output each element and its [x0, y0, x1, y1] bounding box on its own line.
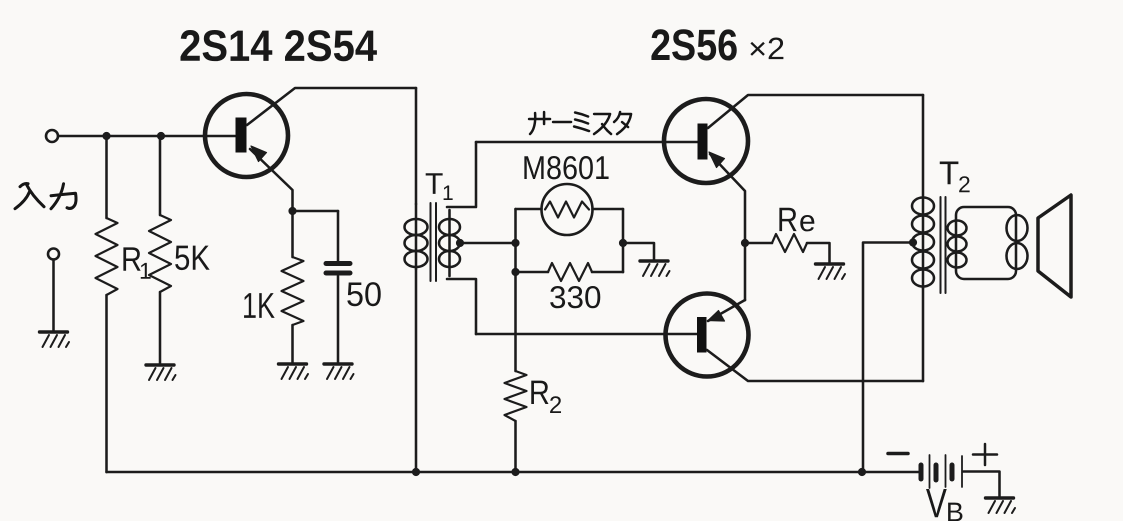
wire T2 center tap to bottom rail [863, 243, 913, 473]
wire thermistor line to Q2 base [476, 141, 698, 144]
battery VB negative plate 1 [919, 465, 924, 479]
svg-text:B: B [946, 497, 964, 521]
svg-text:50: 50 [346, 276, 382, 314]
Q1 emitter arrow [251, 146, 267, 162]
battery VB negative plate 3 [950, 465, 955, 479]
svg-text:5K: 5K [174, 239, 210, 278]
node L (T2 tap / rail) [858, 468, 866, 476]
svg-text:R: R [529, 374, 550, 412]
wire battery positive to ground [964, 472, 1000, 499]
battery VB positive plate 2 [945, 455, 947, 487]
node E [511, 239, 519, 247]
wire J2 to ground [52, 260, 55, 333]
wire Re to ground [807, 243, 830, 264]
transformer T1 secondary winding [439, 210, 460, 276]
svg-text:R: R [777, 201, 798, 239]
resistor Re [772, 234, 807, 252]
speaker cone [1038, 195, 1071, 297]
wire node H to Re [745, 242, 772, 245]
wire top branch right [593, 208, 624, 211]
Q1 collector wire [247, 88, 416, 125]
transistor Q3 circle [666, 294, 749, 377]
node K (R2 / rail) [511, 468, 519, 476]
Q3 emitter wire [708, 300, 745, 321]
node F [619, 239, 627, 247]
svg-text:1: 1 [442, 182, 454, 205]
wire node C to capacitor branch [293, 210, 339, 213]
resistor R1 [96, 218, 118, 295]
wire right rail of thermistor network [622, 209, 625, 272]
T2 secondary / voice-coil loop [948, 207, 1028, 279]
input terminal J1 (upper) [46, 130, 58, 142]
Q3 emitter arrow [708, 311, 725, 322]
svg-text:T: T [939, 154, 959, 191]
ground (thermistor network) [640, 261, 670, 276]
Q2 collector wire [708, 95, 923, 128]
plus sign [973, 444, 997, 465]
svg-text:1K: 1K [242, 285, 275, 326]
wire node A to R1 [105, 136, 108, 218]
wire bottom branch right [592, 271, 623, 274]
resistor 5K [149, 215, 171, 292]
wire 5K to ground [159, 292, 162, 365]
wire to capacitor top plate [337, 211, 340, 261]
wire network to ground [623, 243, 654, 261]
battery VB positive plate 1 [929, 455, 931, 488]
wire to Q3 base [476, 333, 698, 336]
wire T1 secondary bottom [447, 279, 476, 334]
wire top branch left [516, 208, 542, 211]
svg-text:2: 2 [958, 171, 971, 197]
capacitor 50 bottom plate [326, 271, 350, 276]
thermistor zigzag element [545, 202, 589, 218]
wire collector down to T1 primary [415, 88, 418, 204]
thermistor M8601 circle [542, 184, 593, 235]
svg-text:2S56: 2S56 [650, 21, 738, 70]
Q2 emitter arrow [709, 152, 725, 168]
svg-text:V: V [926, 480, 948, 521]
wire T1 primary to bottom rail [415, 269, 418, 472]
minus sign [888, 452, 908, 456]
node I (T2 center tap) [909, 238, 917, 246]
resistor 330 [548, 263, 592, 281]
wire node C to 1K [291, 211, 294, 257]
ground (input) [40, 332, 70, 347]
T1 core [431, 203, 437, 281]
T2 core [941, 197, 946, 293]
wire T2 primary bottom [922, 288, 925, 381]
node B (5K tap) [157, 132, 165, 140]
ground (capacitor 50) [324, 364, 354, 379]
label サーミスタ [529, 112, 631, 134]
node G [511, 268, 519, 276]
Q3 base bar [697, 317, 707, 353]
Q2 base bar [698, 124, 708, 160]
Q2 emitter wire [710, 154, 745, 300]
svg-text:×2: ×2 [748, 31, 785, 66]
node H (emitter junction / Re tap) [741, 239, 749, 247]
wire Q2 collector down to T2 primary [922, 95, 925, 198]
wire 1K to ground [291, 325, 294, 364]
resistor R2 [505, 371, 527, 421]
Q1 base bar [236, 118, 247, 153]
wire bottom branch left [516, 271, 549, 274]
svg-text:330: 330 [549, 279, 602, 315]
transformer T2 primary winding [912, 198, 934, 289]
svg-text:T: T [425, 168, 443, 201]
node A (R1 tap) [102, 132, 110, 140]
wire node G to R2 [514, 272, 517, 371]
svg-text:M8601: M8601 [522, 149, 610, 186]
wire node B to 5K [159, 136, 162, 215]
svg-text:2: 2 [549, 392, 562, 419]
wire center tap [460, 242, 516, 245]
svg-text:e: e [799, 205, 816, 238]
node J (T1 primary / rail) [412, 468, 420, 476]
wire R1 to bottom rail [105, 295, 108, 472]
node C (Q1 emitter junction) [288, 207, 296, 215]
svg-text:2S14 2S54: 2S14 2S54 [179, 22, 378, 71]
input terminal J2 (lower) [48, 249, 59, 260]
svg-text:1: 1 [139, 258, 152, 284]
bottom rail (V- bus) [107, 471, 920, 474]
Q1 emitter wire [250, 149, 293, 211]
wire T1 secondary top [447, 142, 476, 207]
ground (1K) [279, 364, 309, 379]
transformer T1 primary winding [405, 204, 428, 269]
transistor Q2 circle [664, 99, 748, 183]
Q3 collector wire [707, 350, 923, 381]
wire capacitor to ground [337, 276, 340, 364]
wire R2 to bottom rail [514, 421, 517, 472]
battery VB positive plate 3 [961, 456, 963, 487]
battery VB negative plate 2 [934, 465, 939, 480]
transistor Q1 circle [205, 94, 288, 177]
node D (T1 center tap) [456, 239, 464, 247]
ground (Re) [816, 264, 846, 279]
wire left rail of thermistor network [514, 209, 517, 272]
ground (5K) [146, 365, 176, 380]
resistor 1K [282, 257, 304, 325]
wire input to Q1 base [59, 135, 236, 138]
label 入力 (input) [15, 184, 76, 209]
ground (battery) [986, 498, 1016, 513]
capacitor 50 top plate [326, 261, 350, 266]
